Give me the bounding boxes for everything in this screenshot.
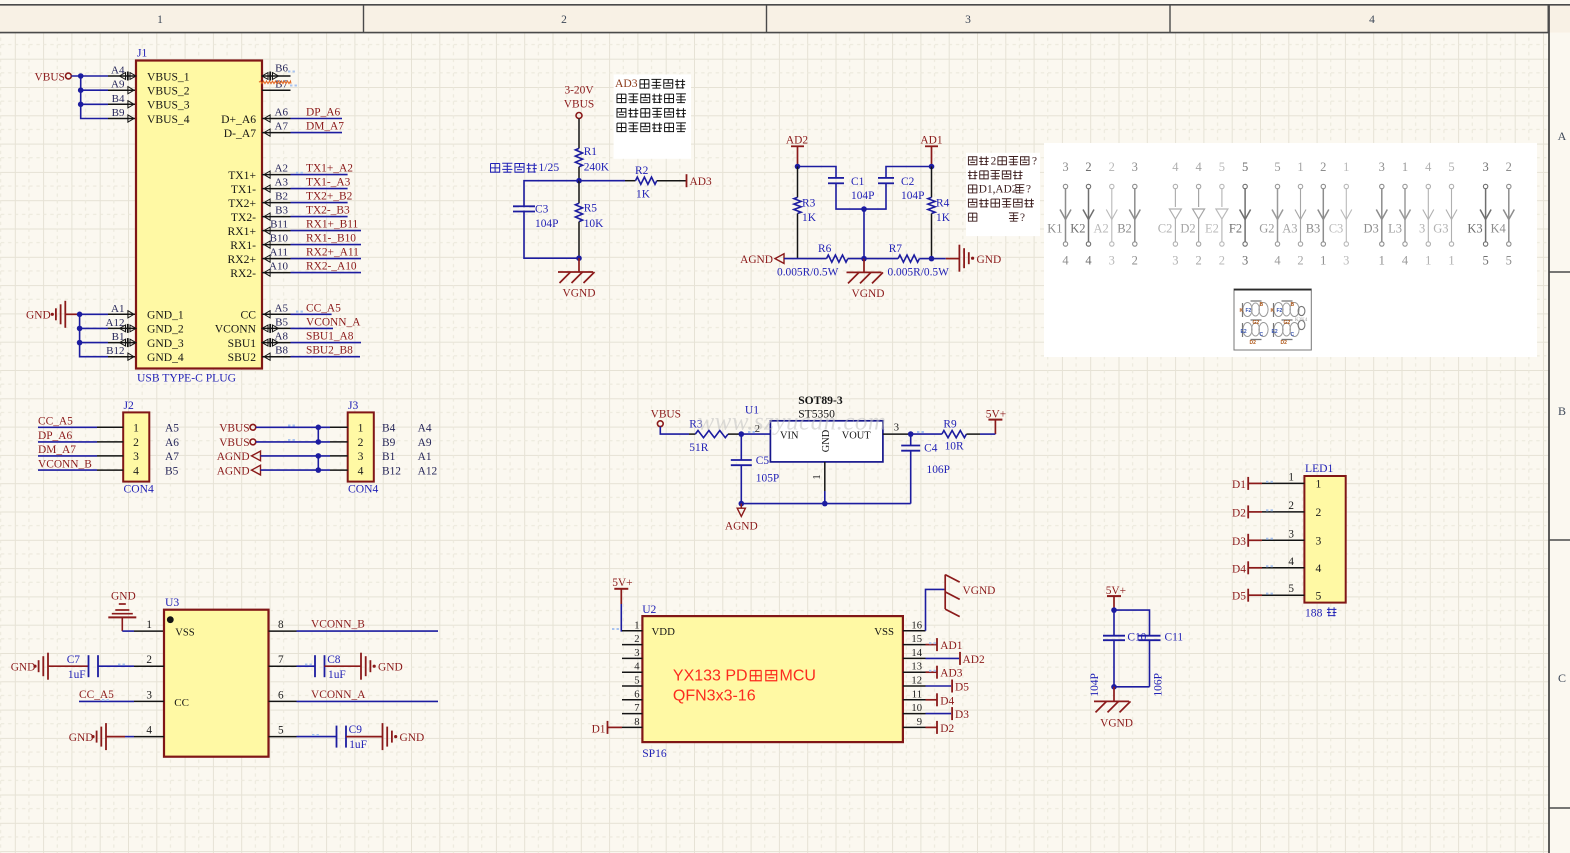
svg-text:C3: C3 <box>535 204 549 216</box>
wire GND to U3 pin1 <box>122 630 134 632</box>
ghost digit at 1254.5 <box>1243 303 1252 317</box>
annotation box (Chinese note 2) <box>966 153 1040 236</box>
svg-text:1: 1 <box>1343 160 1349 174</box>
svg-text:0.005R/0.5W: 0.005R/0.5W <box>777 267 839 279</box>
svg-text:VBUS_4: VBUS_4 <box>147 113 190 126</box>
wire D5 to LED1 <box>1262 594 1304 596</box>
J1 pin A7 stub <box>262 132 291 134</box>
svg-text:VCONN_A: VCONN_A <box>306 316 361 328</box>
J1 pin A6 stub <box>262 118 291 120</box>
svg-text:C4: C4 <box>924 442 938 454</box>
connector J1 body <box>136 61 262 369</box>
svg-text:1uF: 1uF <box>328 669 346 681</box>
U1 GND pin wire <box>824 462 826 491</box>
svg-text:13: 13 <box>911 662 922 673</box>
connector J2 body <box>123 412 149 481</box>
svg-text:B12: B12 <box>106 345 124 357</box>
right band row dividers <box>1549 271 1570 273</box>
J1 pin B5 stub <box>262 327 291 329</box>
U3 pin stubs left rows 2-4 <box>134 665 164 667</box>
svg-text:SOT89-3: SOT89-3 <box>798 394 843 407</box>
svg-text:1: 1 <box>1316 478 1322 491</box>
svg-text:C5: C5 <box>756 455 770 467</box>
svg-text:D1: D1 <box>1232 479 1246 491</box>
svg-text:VBUS_2: VBUS_2 <box>147 85 190 98</box>
svg-text:GND_1: GND_1 <box>147 309 184 322</box>
svg-text:4: 4 <box>146 725 152 737</box>
svg-text:104P: 104P <box>901 190 924 202</box>
capacitor C3 <box>513 205 535 207</box>
svg-text:B4: B4 <box>382 423 396 435</box>
svg-text:B: B <box>1260 302 1264 308</box>
svg-text:GND: GND <box>400 732 425 744</box>
wire CC_A5 to U3 pin3 <box>79 700 134 702</box>
svg-text:A7: A7 <box>165 451 179 463</box>
svg-text:104P: 104P <box>851 190 874 202</box>
svg-text:2: 2 <box>1288 500 1294 512</box>
J1 pin B2 stub <box>262 202 291 204</box>
svg-text:SP16: SP16 <box>642 747 667 760</box>
svg-text:VSS: VSS <box>874 626 894 638</box>
svg-text:2: 2 <box>561 14 567 26</box>
svg-text:1: 1 <box>1379 254 1385 268</box>
resistor R6 <box>827 255 848 262</box>
svg-text:1: 1 <box>133 422 139 435</box>
svg-text:1uF: 1uF <box>349 739 367 751</box>
svg-text:3: 3 <box>1132 160 1138 174</box>
wire net DP_A6 <box>291 118 343 120</box>
U1 pin 3 wire <box>883 433 911 435</box>
svg-text:B2: B2 <box>275 191 288 203</box>
ruler zone dividers <box>363 5 365 33</box>
wire output to R9 <box>911 433 942 435</box>
svg-text:VBUS_1: VBUS_1 <box>147 70 190 83</box>
wire net SBU2_B8 <box>291 356 361 358</box>
svg-text:12: 12 <box>911 676 922 687</box>
svg-text:3: 3 <box>1316 535 1322 548</box>
svg-text:DP_A6: DP_A6 <box>306 107 340 119</box>
svg-text:VCONN: VCONN <box>215 323 257 336</box>
U2 left pin stubs <box>622 630 642 632</box>
node AD1 <box>929 164 935 170</box>
svg-text:1uF: 1uF <box>68 669 86 681</box>
svg-text:1K: 1K <box>936 212 951 224</box>
svg-text:0.005R/0.5W: 0.005R/0.5W <box>888 267 950 279</box>
svg-text:R3: R3 <box>802 198 816 210</box>
wire U3 pin5 to C9 <box>297 736 337 738</box>
resistor R2 <box>625 180 636 182</box>
svg-text:TX2+: TX2+ <box>228 197 256 210</box>
J1 pin B6 IO glyph <box>262 73 268 80</box>
svg-text:C8: C8 <box>327 654 341 666</box>
svg-text:C2: C2 <box>1158 222 1173 236</box>
svg-text:D5: D5 <box>955 682 969 694</box>
J1 pin A5 stub <box>262 313 291 315</box>
svg-text:A1: A1 <box>111 303 124 315</box>
svg-text:B12: B12 <box>382 465 401 477</box>
svg-text:TX1+: TX1+ <box>228 169 256 182</box>
svg-text:B5: B5 <box>165 465 179 477</box>
svg-text:www.szyucan.com: www.szyucan.com <box>698 409 887 436</box>
svg-text:AD1: AD1 <box>940 640 962 652</box>
wire AD1 node to C2 <box>886 167 932 178</box>
svg-text:TX1+_A2: TX1+_A2 <box>306 163 353 175</box>
wire node to R2 <box>579 180 625 182</box>
svg-text:5: 5 <box>278 725 284 737</box>
ERC squiggle marker at B7 <box>259 81 291 84</box>
svg-text:D2: D2 <box>1250 340 1257 346</box>
svg-text:SBU2: SBU2 <box>228 351 257 364</box>
svg-text:GND: GND <box>111 591 136 603</box>
ground VGND (C10) <box>1113 687 1115 702</box>
wire VBUS to R1 <box>578 119 580 149</box>
svg-text:1/25: 1/25 <box>539 161 560 174</box>
svg-text:B7: B7 <box>275 79 288 91</box>
wire to U3 pin4 <box>125 736 134 738</box>
svg-text:VBUS_3: VBUS_3 <box>147 99 190 112</box>
wire D4 to LED1 <box>1262 567 1304 569</box>
svg-text:4: 4 <box>1316 562 1322 575</box>
svg-text:E2: E2 <box>1241 329 1247 335</box>
svg-text:CON4: CON4 <box>124 482 154 495</box>
svg-text:1: 1 <box>1288 471 1294 483</box>
node mid rail <box>861 206 867 212</box>
svg-text:2: 2 <box>991 155 997 167</box>
svg-text:?: ? <box>1020 212 1025 224</box>
svg-text:RX2-: RX2- <box>230 267 256 280</box>
svg-text:10: 10 <box>911 703 922 714</box>
svg-text:C: C <box>1260 332 1264 338</box>
svg-text:6: 6 <box>634 689 639 700</box>
svg-text:5: 5 <box>634 676 639 687</box>
power ground GND (C9) <box>382 723 384 750</box>
svg-text:QFN3x3-16: QFN3x3-16 <box>673 688 756 705</box>
power ground GND (sense right) <box>958 245 960 272</box>
wire C7 to U3 pin2 <box>98 665 134 667</box>
svg-text:C10: C10 <box>1127 632 1146 644</box>
capacitor C9 <box>336 726 338 748</box>
svg-text:C9: C9 <box>349 724 363 736</box>
svg-text:K4: K4 <box>1491 222 1507 236</box>
svg-text:D1,AD2: D1,AD2 <box>979 184 1018 196</box>
svg-text:D3: D3 <box>955 709 969 721</box>
svg-text:3: 3 <box>1242 254 1248 268</box>
wire VBUS to R3b <box>660 427 689 435</box>
svg-text:2: 2 <box>1506 160 1512 174</box>
wire mid rail to bottom <box>863 209 865 259</box>
svg-text:K: K <box>1240 308 1244 314</box>
svg-text:F2: F2 <box>1229 222 1242 236</box>
J1 pin B3 stub <box>262 216 291 218</box>
svg-text:R6: R6 <box>818 243 832 255</box>
svg-text:A2: A2 <box>275 163 288 175</box>
compile marks <box>288 71 290 73</box>
svg-text:10R: 10R <box>945 440 964 452</box>
wire CC_A5 to J2 <box>38 426 97 428</box>
svg-text:CC: CC <box>241 309 257 322</box>
ghost colon marks <box>1298 306 1305 315</box>
J1 VBUS pin stubs <box>108 75 136 77</box>
U3 pin1 dot <box>167 616 174 623</box>
J1 pin B11 stub <box>262 230 291 232</box>
wire net CC_A5 <box>291 313 332 315</box>
svg-text:3: 3 <box>146 689 152 701</box>
port AD3 (U2) <box>926 671 938 673</box>
svg-text:VCONN_B: VCONN_B <box>38 458 92 470</box>
svg-text:3: 3 <box>358 450 364 463</box>
node AD2 <box>795 164 801 170</box>
capacitor C8 <box>314 655 316 677</box>
svg-text:106P: 106P <box>1152 673 1164 696</box>
svg-text:VBUS: VBUS <box>219 423 249 435</box>
svg-text:188: 188 <box>1305 606 1323 619</box>
svg-text:K3K4: K3K4 <box>1295 318 1308 323</box>
svg-text:B: B <box>1558 404 1566 418</box>
wire net RX1-_B10 <box>291 244 362 246</box>
ghost digit at 1285.5 <box>1274 303 1283 317</box>
svg-text:10K: 10K <box>584 218 604 230</box>
svg-text:1: 1 <box>1402 160 1408 174</box>
svg-text:240K: 240K <box>584 162 610 174</box>
svg-text:AD3: AD3 <box>690 176 712 188</box>
svg-text:4: 4 <box>1274 254 1281 268</box>
node divider bottom <box>576 255 582 261</box>
port D3 (U2) <box>926 713 952 715</box>
svg-text:D4: D4 <box>940 695 954 707</box>
svg-text:1: 1 <box>1297 160 1303 174</box>
svg-text:105P: 105P <box>756 472 779 484</box>
svg-text:VBUS: VBUS <box>219 437 249 449</box>
port AD1 (U2) <box>926 644 938 646</box>
junction AGND rail center <box>822 501 828 507</box>
svg-text:F2: F2 <box>1277 308 1283 314</box>
svg-text:G2: G2 <box>1253 320 1260 326</box>
capacitor C11 <box>1139 635 1161 637</box>
svg-text:RX1-_B10: RX1-_B10 <box>306 233 356 245</box>
svg-text:1: 1 <box>146 619 152 631</box>
svg-text:RX2+: RX2+ <box>228 253 256 266</box>
ghost 7-seg preview box <box>1234 289 1311 350</box>
svg-text:R4: R4 <box>936 198 950 210</box>
junction J3 AGND pair <box>317 456 319 470</box>
wire net RX2-_A10 <box>291 272 362 274</box>
wire net TX1+_A2 <box>291 174 348 176</box>
svg-text:B11: B11 <box>270 219 288 231</box>
J1 pin VCONN IO glyph <box>262 325 268 332</box>
svg-text:AD3: AD3 <box>940 668 962 680</box>
node divider mid <box>576 178 582 184</box>
power ground GND (C8) <box>360 653 362 680</box>
J1 pin A12 IO glyph <box>130 325 136 332</box>
wire R5 to bottom node <box>578 222 580 259</box>
right sheet border <box>1548 5 1550 853</box>
capacitor C5 <box>740 434 742 460</box>
node U1 input <box>739 431 745 437</box>
svg-text:GND: GND <box>11 662 36 674</box>
svg-text:11: 11 <box>912 689 922 700</box>
svg-text:C2: C2 <box>901 176 915 188</box>
svg-text:5: 5 <box>1242 160 1248 174</box>
svg-text:SBU1: SBU1 <box>228 337 257 350</box>
svg-text:51R: 51R <box>689 442 708 454</box>
svg-text:2: 2 <box>146 654 152 666</box>
svg-text:4: 4 <box>1085 254 1092 268</box>
svg-text:R2: R2 <box>635 165 649 177</box>
svg-text:A5: A5 <box>275 302 289 314</box>
svg-text:E2: E2 <box>1205 222 1219 236</box>
svg-text:B10: B10 <box>270 233 289 245</box>
svg-text:A12: A12 <box>418 465 438 477</box>
svg-text:2: 2 <box>1219 254 1225 268</box>
svg-text:B8: B8 <box>275 345 288 357</box>
svg-text:104P: 104P <box>1089 673 1101 696</box>
svg-text:B9: B9 <box>112 107 125 119</box>
wire DM_A7 to J2 <box>38 455 97 457</box>
svg-text:4: 4 <box>634 662 640 673</box>
svg-text:2: 2 <box>1320 160 1326 174</box>
svg-text:5: 5 <box>1288 583 1294 595</box>
svg-text:B3: B3 <box>275 205 288 217</box>
ground VGND (divider) <box>578 258 580 272</box>
svg-text:K1: K1 <box>1047 222 1062 236</box>
wire R6 to center node <box>848 258 864 260</box>
svg-text:C7: C7 <box>67 654 81 666</box>
ghost panel background <box>1044 143 1537 357</box>
ground VGND (U2) <box>944 575 946 610</box>
resistor R3 (51R) <box>689 433 695 435</box>
svg-text:G3: G3 <box>1433 222 1448 236</box>
note 分压比例 1/25 <box>491 164 500 173</box>
svg-text:AD1: AD1 <box>920 135 942 147</box>
svg-text:VBUS: VBUS <box>564 99 594 111</box>
svg-text:3: 3 <box>1062 160 1068 174</box>
svg-text:3: 3 <box>965 14 971 26</box>
svg-text:DM_A7: DM_A7 <box>38 444 76 456</box>
svg-text:3: 3 <box>1109 254 1115 268</box>
svg-text:1: 1 <box>634 620 639 631</box>
wire 5V+ to R9 <box>980 433 995 435</box>
svg-text:B2: B2 <box>1117 222 1132 236</box>
U3 pin stubs right <box>269 630 297 632</box>
wire C1 to mid rail <box>836 183 886 209</box>
svg-text:RX1+_B11: RX1+_B11 <box>306 219 359 231</box>
svg-text:U3: U3 <box>165 596 179 609</box>
wire net DM_A7 <box>291 132 343 134</box>
svg-text:1: 1 <box>157 14 163 26</box>
svg-text:G2: G2 <box>1284 320 1291 326</box>
svg-text:5V+: 5V+ <box>612 577 632 589</box>
svg-text:4: 4 <box>1195 160 1202 174</box>
svg-text:4: 4 <box>1288 556 1294 568</box>
MCU U2 body <box>642 616 903 742</box>
svg-text:A1: A1 <box>418 451 432 463</box>
svg-text:R9: R9 <box>943 419 957 431</box>
svg-text:CON4: CON4 <box>348 482 378 495</box>
wire U2 pin16 to VGND <box>926 589 946 630</box>
svg-text:A6: A6 <box>275 107 289 119</box>
svg-text:D1: D1 <box>592 723 606 735</box>
svg-text:1: 1 <box>812 474 823 479</box>
wire C9 to GND <box>346 736 383 738</box>
svg-text:VBUS: VBUS <box>651 408 681 420</box>
svg-text:1K: 1K <box>802 212 817 224</box>
wire U3 pin7 to C8 <box>297 665 316 667</box>
J1 pin A11 stub <box>262 258 291 260</box>
svg-text:?: ? <box>1026 184 1031 196</box>
svg-text:TX2-_B3: TX2-_B3 <box>306 205 350 217</box>
svg-text:VDD: VDD <box>652 626 676 638</box>
svg-text:2: 2 <box>1085 160 1091 174</box>
annotation box AD3 <box>614 75 691 159</box>
wire net RX1+_B11 <box>291 230 362 232</box>
J1 pin A4 IO glyph <box>130 73 136 80</box>
svg-text:RX2+_A11: RX2+_A11 <box>306 247 359 259</box>
svg-text:5V+: 5V+ <box>1106 585 1126 597</box>
svg-text:D3: D3 <box>1364 222 1379 236</box>
svg-text:K: K <box>1271 308 1275 314</box>
wires to J3 <box>256 426 330 428</box>
svg-text:A8: A8 <box>275 331 289 343</box>
svg-text:D2: D2 <box>1180 222 1195 236</box>
svg-text:1: 1 <box>1425 254 1431 268</box>
svg-text:AGND: AGND <box>217 451 250 463</box>
svg-text:AD3: AD3 <box>615 77 638 90</box>
svg-text:R1: R1 <box>584 146 598 158</box>
svg-text:DP_A6: DP_A6 <box>38 430 72 442</box>
svg-text:8: 8 <box>634 717 639 728</box>
wire DP_A6 to J2 <box>38 441 97 443</box>
svg-text:3: 3 <box>634 648 639 659</box>
J1 pin A10 stub <box>262 272 291 274</box>
wire VCONN_B to J2 <box>38 469 97 471</box>
wire C10/C11 top <box>1114 610 1150 636</box>
capacitor C4 <box>910 434 912 445</box>
svg-text:5V+: 5V+ <box>986 408 1006 420</box>
svg-text:G2: G2 <box>1259 222 1274 236</box>
svg-text:A2: A2 <box>1094 222 1109 236</box>
svg-text:D5: D5 <box>1232 591 1246 603</box>
svg-text:B1: B1 <box>382 451 396 463</box>
svg-text:3: 3 <box>1482 160 1488 174</box>
wire center node to R7 <box>864 258 898 260</box>
svg-text:J1: J1 <box>137 47 148 60</box>
J1 pin A8 stub <box>262 342 291 344</box>
svg-text:B9: B9 <box>382 437 396 449</box>
wire AD2 node to C1 <box>798 167 837 178</box>
ground VGND (sense) <box>863 259 865 273</box>
J1 pin direction glyphs left <box>128 87 134 94</box>
svg-text:B6: B6 <box>275 63 288 75</box>
svg-text:A5: A5 <box>165 423 179 435</box>
svg-text:SBU2_B8: SBU2_B8 <box>306 345 353 357</box>
svg-text:R7: R7 <box>889 243 903 255</box>
J1 pin A3 stub <box>262 188 291 190</box>
port AD2 (U2) <box>926 657 960 659</box>
svg-text:GND: GND <box>378 662 403 674</box>
svg-text:VCONN_A: VCONN_A <box>311 689 366 701</box>
svg-text:D+_A6: D+_A6 <box>221 113 256 126</box>
svg-text:D3: D3 <box>1232 536 1246 548</box>
svg-text:A6: A6 <box>165 437 179 449</box>
svg-text:2: 2 <box>1109 160 1115 174</box>
svg-text:5: 5 <box>1316 590 1322 603</box>
connector LED1 body <box>1304 476 1345 603</box>
svg-text:A4: A4 <box>418 423 432 435</box>
svg-text:B: B <box>1291 302 1295 308</box>
svg-text:VGND: VGND <box>963 585 996 597</box>
J1 pin B1 IO glyph <box>130 339 136 346</box>
svg-text:A7: A7 <box>275 121 289 133</box>
